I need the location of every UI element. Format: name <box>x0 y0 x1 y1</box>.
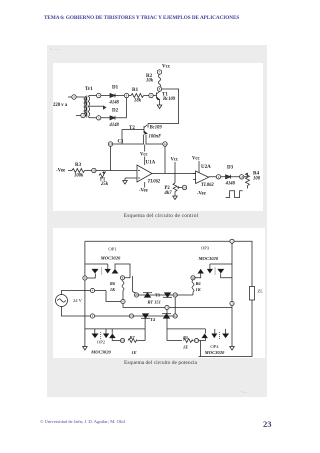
svg-text:D3: D3 <box>227 166 234 171</box>
svg-text:MOC3020: MOC3020 <box>197 256 218 261</box>
svg-text:18: 18 <box>121 339 125 343</box>
svg-text:18k: 18k <box>134 99 142 104</box>
svg-text:13: 13 <box>109 142 113 146</box>
svg-text:2: 2 <box>231 302 233 306</box>
svg-text:1E: 1E <box>183 345 188 350</box>
svg-text:19: 19 <box>173 293 177 297</box>
svg-text:D2: D2 <box>112 109 119 114</box>
svg-text:10k: 10k <box>146 79 154 84</box>
svg-text:U2A: U2A <box>201 165 211 170</box>
svg-text:5: 5 <box>91 314 93 318</box>
svg-text:24 V: 24 V <box>73 298 83 303</box>
svg-text:9: 9 <box>122 300 124 304</box>
svg-text:MOC3020: MOC3020 <box>99 256 120 261</box>
svg-text:3: 3 <box>166 306 168 310</box>
svg-text:Vcc: Vcc <box>192 157 200 162</box>
svg-text:R7: R7 <box>129 335 135 340</box>
svg-text:R3: R3 <box>75 163 82 168</box>
svg-text:U1A: U1A <box>146 161 156 166</box>
svg-text:Vcc: Vcc <box>140 153 148 158</box>
svg-text:R6: R6 <box>109 281 115 286</box>
svg-text:100: 100 <box>253 176 261 181</box>
svg-text:220 v a: 220 v a <box>53 103 68 108</box>
svg-text:4k7: 4k7 <box>164 191 173 196</box>
svg-text:Vcc: Vcc <box>171 158 179 163</box>
svg-text:MOC3020: MOC3020 <box>90 349 111 354</box>
svg-text:Bc109: Bc109 <box>162 97 176 102</box>
svg-text:Tr1: Tr1 <box>85 87 93 92</box>
svg-text:8: 8 <box>121 276 123 280</box>
svg-text:20: 20 <box>135 293 139 297</box>
svg-text:4148: 4148 <box>225 182 236 187</box>
svg-text:ZL: ZL <box>257 289 263 294</box>
svg-text:OP1: OP1 <box>108 247 117 252</box>
svg-text:6: 6 <box>84 276 86 280</box>
svg-text:4148: 4148 <box>109 123 120 128</box>
svg-text:-Vee: -Vee <box>197 192 206 197</box>
svg-text:1E: 1E <box>131 350 136 355</box>
svg-text:1: 1 <box>231 240 233 244</box>
svg-text:10: 10 <box>191 276 195 280</box>
svg-text:T2: T2 <box>129 126 135 131</box>
svg-text:-Vee: -Vee <box>139 189 148 194</box>
svg-text:100k: 100k <box>74 174 84 179</box>
svg-text:16: 16 <box>183 186 187 190</box>
svg-text:Vcc: Vcc <box>162 65 171 70</box>
svg-text:21: 21 <box>130 314 134 318</box>
svg-text:D1: D1 <box>112 86 119 91</box>
svg-text:TL062: TL062 <box>148 180 161 185</box>
svg-text:OP2: OP2 <box>96 340 105 345</box>
svg-text:OP4: OP4 <box>210 344 219 349</box>
svg-text:100nF: 100nF <box>149 135 163 140</box>
svg-text:4148: 4148 <box>109 100 120 105</box>
svg-text:17: 17 <box>195 339 199 343</box>
svg-text:25k: 25k <box>100 182 109 187</box>
svg-text:OP3: OP3 <box>200 246 209 251</box>
svg-text:MOC3020: MOC3020 <box>203 350 224 355</box>
svg-text:Bc109: Bc109 <box>149 126 163 131</box>
svg-text:22: 22 <box>173 314 177 318</box>
svg-text:TL062: TL062 <box>201 183 214 188</box>
svg-text:14: 14 <box>164 142 168 146</box>
svg-text:T3: T3 <box>155 293 160 298</box>
svg-text:-Vee: -Vee <box>56 169 66 174</box>
svg-text:4: 4 <box>91 289 93 293</box>
svg-text:1K: 1K <box>195 287 201 292</box>
svg-text:BT 151: BT 151 <box>146 300 160 305</box>
svg-text:15: 15 <box>240 175 244 179</box>
svg-text:R6: R6 <box>195 281 201 286</box>
svg-text:R1: R1 <box>132 88 139 93</box>
svg-text:10: 10 <box>92 169 96 173</box>
svg-text:C1: C1 <box>118 140 125 145</box>
svg-text:R5: R5 <box>183 335 189 340</box>
svg-text:1K: 1K <box>109 287 115 292</box>
svg-text:T4: T4 <box>150 317 156 322</box>
